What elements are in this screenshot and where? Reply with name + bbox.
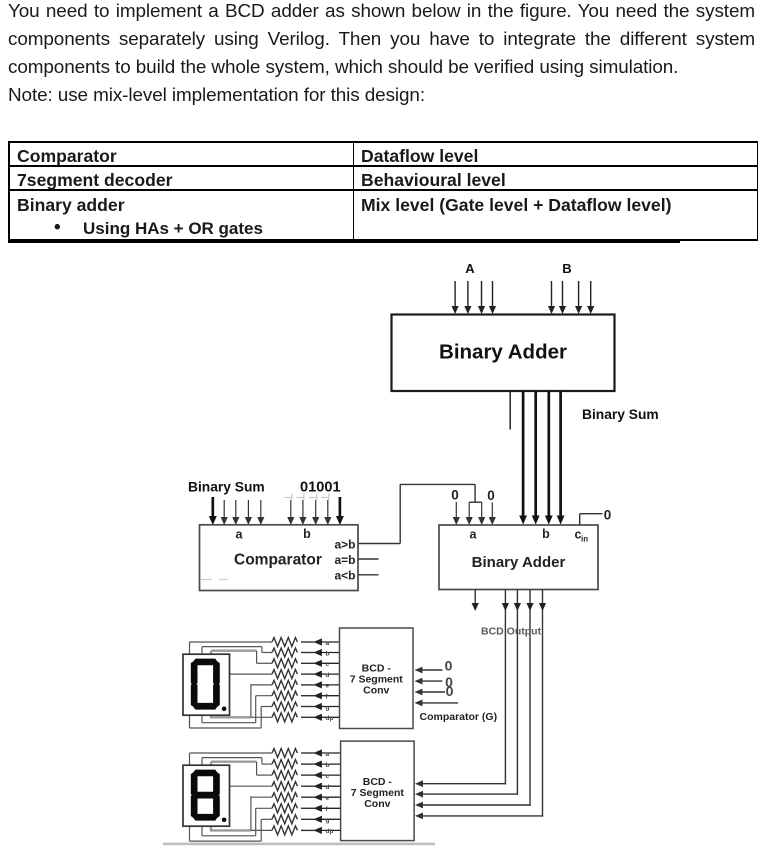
svg-text:Comparator: Comparator — [234, 552, 322, 569]
svg-text:Binary Sum: Binary Sum — [582, 407, 659, 422]
constant 0 into U3 a-input bit0 — [487, 488, 496, 525]
svg-text:e: e — [326, 683, 330, 690]
resistor segment b — [272, 760, 341, 769]
resistor segment g — [272, 702, 340, 711]
svg-text:b: b — [303, 527, 311, 541]
resistor segment e — [272, 680, 340, 689]
svg-text:Binary Adder: Binary Adder — [439, 341, 567, 364]
resistor segment b — [272, 648, 340, 657]
wire BCD output bus verticals with mid arrowheads — [502, 590, 546, 817]
wire comparator b-input arrows (constant 01001) — [284, 494, 344, 526]
wire binary sum bus (U1 outputs) — [510, 391, 564, 525]
wire constant-0 inputs to U4 (three zeros) — [415, 667, 459, 707]
svg-text:d: d — [326, 672, 330, 679]
svg-text:Binary Adder: Binary Adder — [472, 554, 566, 571]
paragraph text — [8, 0, 755, 110]
svg-text:g: g — [326, 817, 330, 824]
svg-text:dp: dp — [326, 715, 334, 722]
constant 0 into U3 a-input bit3 — [451, 488, 460, 526]
resistor segment dp — [272, 826, 341, 835]
binary adder U3 (BCD correction adder) — [439, 525, 598, 590]
svg-text:B: B — [562, 261, 571, 276]
svg-text:Conv: Conv — [364, 798, 390, 810]
svg-text:a: a — [326, 640, 330, 647]
svg-text:b: b — [326, 762, 330, 769]
resistor segment f — [272, 691, 340, 700]
svg-text:01001: 01001 — [300, 480, 341, 496]
svg-text:f: f — [326, 694, 329, 701]
binary adder U1 (4-bit binary adder block) — [392, 315, 615, 392]
resistor segment c — [272, 659, 340, 668]
svg-text:d: d — [326, 784, 330, 791]
svg-text:a<b: a<b — [335, 569, 356, 583]
svg-text:e: e — [326, 795, 330, 802]
resistor segment g — [272, 815, 341, 824]
seven segment display — [183, 654, 230, 715]
svg-text:Binary Sum: Binary Sum — [188, 480, 265, 495]
wire B input bus arrows — [548, 281, 594, 314]
wire display segment nest (mid loop) — [202, 647, 262, 723]
resistor segment d — [272, 782, 341, 791]
svg-text:a=b: a=b — [335, 553, 356, 567]
resistor segment a — [272, 638, 340, 647]
comparator U2 block — [200, 525, 359, 591]
svg-text:a: a — [236, 528, 244, 542]
wire segment row connectors (right bends) — [230, 647, 273, 728]
wire a=b output stub — [358, 558, 379, 560]
resistor segment f — [272, 804, 341, 813]
svg-text:BCD Output: BCD Output — [481, 626, 542, 638]
wire display segment nest (mid loop) — [202, 758, 262, 836]
resistor segment a — [272, 749, 341, 758]
table: requirements levels — [8, 141, 758, 143]
artifact dashes in comparator — [201, 579, 212, 581]
wire segment row connectors (right bends) — [230, 758, 273, 842]
wire comparator a-input arrows (binary sum) — [209, 497, 265, 525]
wire display segment nest (grey inner loop) — [210, 651, 257, 718]
wire a&lt;b output stub — [358, 574, 379, 576]
svg-text:a: a — [326, 751, 330, 758]
svg-text:0: 0 — [487, 488, 495, 503]
wire c_in tied to constant 0 — [580, 508, 612, 526]
BCD to 7-segment converter block — [341, 741, 415, 841]
svg-text:0: 0 — [451, 488, 459, 503]
wire A input bus arrows — [452, 281, 497, 314]
svg-text:c: c — [326, 661, 330, 668]
svg-text:b: b — [542, 527, 550, 541]
wire display segment nest (outer loop) — [190, 753, 262, 841]
svg-text:dp: dp — [326, 828, 334, 835]
wire a&gt;b output to U3 a-input (cmp route) — [358, 484, 485, 543]
page-edge artifact line — [163, 843, 435, 846]
svg-text:a>b: a>b — [335, 538, 356, 552]
svg-text:f: f — [326, 806, 329, 813]
svg-text:Comparator (G): Comparator (G) — [420, 711, 498, 723]
wire BCD bus into U5 inputs (left arrows) — [415, 780, 543, 819]
wire row-a to outer nest — [190, 641, 273, 643]
svg-text:Conv: Conv — [363, 685, 389, 697]
svg-text:c: c — [326, 773, 330, 780]
wire display segment nest (outer loop) — [190, 642, 262, 728]
svg-text:A: A — [465, 261, 475, 276]
svg-text:b: b — [326, 650, 330, 657]
svg-text:0: 0 — [446, 683, 454, 699]
wire carry output arrow below U3 — [474, 590, 476, 605]
resistor segment c — [272, 771, 341, 780]
svg-text:0: 0 — [445, 658, 453, 674]
svg-text:g: g — [326, 704, 330, 711]
resistor segment e — [272, 793, 341, 802]
svg-text:in: in — [581, 535, 588, 544]
svg-text:0: 0 — [604, 508, 612, 523]
wire display segment nest (grey inner loop) — [210, 762, 257, 831]
BCD to 7-segment converter block — [340, 628, 414, 729]
resistor segment dp — [272, 713, 340, 722]
svg-text:a: a — [470, 528, 478, 542]
seven segment display — [183, 765, 230, 826]
display digit glyph — [191, 770, 227, 823]
resistor segment d — [272, 670, 340, 679]
wire row-a to outer nest — [190, 752, 273, 754]
display digit glyph — [191, 659, 227, 712]
